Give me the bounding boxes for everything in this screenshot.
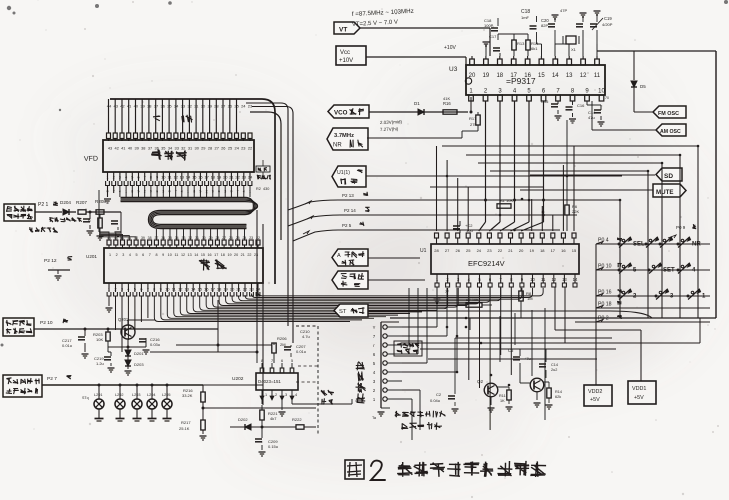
svg-text:Q2: Q2: [477, 379, 484, 384]
svg-text:P2 13: P2 13: [342, 193, 354, 198]
svg-text:P2 10: P2 10: [40, 320, 53, 326]
svg-text:17: 17: [510, 73, 517, 79]
svg-text:2u2: 2u2: [551, 368, 557, 372]
svg-text:70: 70: [605, 96, 609, 100]
svg-text:27: 27: [221, 104, 226, 109]
svg-text:13: 13: [188, 253, 192, 257]
svg-text:L203: L203: [132, 393, 140, 397]
svg-text:U1: U1: [420, 248, 427, 254]
svg-text:U1(1): U1(1): [337, 170, 350, 176]
svg-text:R222: R222: [292, 417, 302, 422]
svg-text:7: 7: [271, 359, 273, 363]
svg-text:R17: R17: [469, 116, 477, 121]
svg-text:+10V: +10V: [339, 58, 353, 64]
svg-text:8: 8: [155, 253, 157, 257]
svg-text:1.2u: 1.2u: [96, 361, 104, 366]
svg-text:D204: D204: [60, 200, 71, 205]
svg-text:Q201: Q201: [118, 317, 129, 322]
svg-text:C14: C14: [551, 363, 558, 367]
svg-text:28: 28: [208, 146, 212, 151]
svg-text:33.2K: 33.2K: [182, 393, 193, 398]
svg-text:3: 3: [285, 393, 287, 397]
svg-text:R206: R206: [277, 336, 287, 341]
svg-text:18: 18: [540, 248, 545, 253]
svg-text:38: 38: [148, 236, 152, 240]
svg-text:25.1K: 25.1K: [179, 426, 190, 431]
svg-text:D5: D5: [640, 84, 646, 89]
svg-text:36: 36: [161, 236, 165, 240]
svg-text:4: 4: [295, 393, 297, 397]
svg-text:R13: R13: [517, 41, 525, 46]
svg-text:C2: C2: [436, 392, 442, 397]
svg-text:R217: R217: [181, 420, 191, 425]
svg-text:10K: 10K: [96, 337, 103, 342]
svg-text:12: 12: [580, 73, 587, 79]
svg-text:D201: D201: [134, 351, 144, 356]
svg-text:27: 27: [222, 236, 226, 240]
svg-text:NR: NR: [692, 242, 701, 248]
svg-text:29: 29: [201, 146, 205, 151]
svg-text:14: 14: [194, 253, 198, 257]
svg-text:17: 17: [551, 248, 556, 253]
svg-text:24: 24: [477, 248, 482, 253]
svg-text:17: 17: [214, 253, 218, 257]
svg-text:C15: C15: [541, 99, 549, 104]
svg-text:21: 21: [241, 253, 245, 257]
svg-text:24: 24: [241, 104, 246, 109]
svg-text:+10V: +10V: [444, 45, 456, 51]
svg-text:100P: 100P: [484, 23, 494, 28]
svg-text:15: 15: [538, 73, 545, 79]
svg-text:0.03u: 0.03u: [150, 342, 160, 347]
svg-text:P2 14: P2 14: [344, 208, 356, 213]
svg-text:VCO: VCO: [334, 110, 348, 117]
svg-text:28: 28: [434, 248, 439, 253]
svg-text:21: 21: [508, 248, 513, 253]
svg-text:16: 16: [207, 253, 211, 257]
svg-text:2.03V(mid): 2.03V(mid): [380, 119, 403, 125]
svg-text:38: 38: [147, 104, 152, 109]
svg-text:35: 35: [168, 236, 172, 240]
svg-text:X1: X1: [571, 47, 577, 52]
svg-text:P2 12: P2 12: [44, 258, 57, 264]
svg-text:37: 37: [154, 104, 159, 109]
svg-text:VT: VT: [339, 27, 347, 34]
svg-text:1M: 1M: [527, 296, 533, 301]
svg-text:15: 15: [572, 248, 577, 253]
svg-text:2: 2: [116, 253, 118, 257]
svg-text:14: 14: [552, 73, 559, 79]
svg-text:18: 18: [496, 73, 503, 79]
svg-text:30: 30: [202, 236, 206, 240]
svg-text:16: 16: [524, 73, 531, 79]
svg-text:26: 26: [229, 236, 233, 240]
svg-text:+5V: +5V: [634, 395, 644, 401]
svg-text:20: 20: [234, 253, 238, 257]
svg-text:33: 33: [181, 104, 186, 109]
svg-text:12: 12: [181, 253, 185, 257]
svg-text:15: 15: [201, 253, 205, 257]
svg-text:3: 3: [122, 253, 124, 257]
svg-text:R208: R208: [95, 199, 106, 204]
svg-text:+5V: +5V: [590, 397, 600, 403]
svg-text:7: 7: [149, 253, 151, 257]
svg-text:47u: 47u: [588, 115, 595, 120]
svg-text:A: A: [337, 253, 341, 259]
svg-text:R2: R2: [256, 187, 261, 191]
svg-text:C3: C3: [508, 348, 514, 353]
svg-text:44: 44: [107, 104, 112, 109]
svg-text:29: 29: [207, 104, 212, 109]
svg-text:22: 22: [247, 253, 251, 257]
svg-text:43: 43: [108, 146, 112, 151]
svg-text:26: 26: [455, 248, 460, 253]
svg-text:23: 23: [248, 104, 253, 109]
svg-text:+7u: +7u: [524, 356, 531, 361]
svg-text:27: 27: [215, 146, 219, 151]
svg-text:D203: D203: [134, 362, 144, 367]
svg-text:C16: C16: [577, 103, 585, 108]
svg-text:0.01u: 0.01u: [62, 343, 72, 348]
svg-text:23: 23: [241, 146, 245, 151]
svg-text:35: 35: [161, 146, 165, 151]
svg-text:23: 23: [487, 248, 492, 253]
svg-text:37: 37: [154, 236, 158, 240]
svg-text:25: 25: [234, 104, 239, 109]
svg-text:37: 37: [148, 146, 152, 151]
svg-text:24: 24: [243, 236, 247, 240]
svg-text:62k: 62k: [555, 395, 561, 399]
svg-text:31: 31: [194, 104, 199, 109]
svg-text:U201: U201: [86, 254, 97, 259]
svg-text:4: 4: [129, 253, 131, 257]
svg-text:ST: ST: [339, 309, 347, 315]
svg-text:31: 31: [188, 146, 192, 151]
svg-text:41: 41: [127, 104, 132, 109]
svg-text:L204: L204: [147, 393, 155, 397]
svg-text:Y: Y: [373, 325, 376, 330]
svg-text:1K: 1K: [500, 399, 505, 403]
svg-text:34: 34: [175, 236, 179, 240]
svg-text:39: 39: [140, 104, 145, 109]
svg-text:A1 10K: A1 10K: [500, 198, 513, 203]
svg-text:7.27V(hi): 7.27V(hi): [380, 126, 399, 132]
svg-text:VFD: VFD: [84, 156, 98, 163]
svg-text:6: 6: [281, 359, 283, 363]
svg-text:31: 31: [195, 236, 199, 240]
svg-text:8: 8: [261, 359, 263, 363]
svg-text:41: 41: [121, 146, 125, 151]
svg-text:26: 26: [228, 104, 233, 109]
svg-text:R: R: [88, 219, 91, 223]
svg-text:42: 42: [120, 104, 125, 109]
svg-text:3.7MHz: 3.7MHz: [334, 133, 354, 139]
svg-text:82P: 82P: [541, 23, 548, 28]
svg-text:P0 9: P0 9: [676, 225, 686, 230]
svg-text:4.7u: 4.7u: [302, 334, 310, 339]
svg-text:MUTE: MUTE: [656, 189, 674, 196]
svg-text:1: 1: [265, 393, 267, 397]
svg-text:VDD1: VDD1: [632, 386, 646, 392]
svg-text:6k1: 6k1: [531, 46, 538, 51]
svg-text:L202: L202: [115, 393, 123, 397]
svg-text:P2 7: P2 7: [47, 376, 57, 382]
svg-text:6: 6: [142, 253, 144, 257]
svg-text:41K: 41K: [443, 96, 450, 101]
svg-text:32: 32: [188, 236, 192, 240]
svg-text:1: 1: [109, 253, 111, 257]
svg-text:40: 40: [134, 104, 139, 109]
svg-text:SD: SD: [664, 173, 673, 180]
svg-text:0.15u: 0.15u: [268, 444, 278, 449]
svg-text:2: 2: [275, 393, 277, 397]
svg-text:C19: C19: [604, 16, 612, 21]
svg-text:D4023=151: D4023=151: [258, 379, 281, 384]
svg-text:9: 9: [162, 253, 164, 257]
svg-text:Vcc: Vcc: [340, 50, 350, 56]
svg-text:SET: SET: [663, 268, 675, 274]
svg-text:U3: U3: [449, 66, 458, 73]
svg-text:20: 20: [519, 248, 524, 253]
svg-text:25: 25: [466, 248, 471, 253]
svg-text:L205: L205: [162, 393, 170, 397]
svg-text:22K: 22K: [572, 209, 579, 214]
svg-text:16: 16: [561, 248, 566, 253]
svg-text:39: 39: [135, 146, 139, 151]
svg-text:19: 19: [483, 73, 490, 79]
svg-text:25: 25: [236, 236, 240, 240]
svg-text:f =87.5MHz ~ 103MHz: f =87.5MHz ~ 103MHz: [352, 8, 414, 18]
svg-text:P2 1: P2 1: [38, 202, 49, 208]
svg-text:35: 35: [167, 104, 172, 109]
svg-text:4/20P: 4/20P: [602, 22, 613, 27]
svg-text:27: 27: [445, 248, 450, 253]
svg-text:1mF: 1mF: [521, 15, 530, 20]
svg-text:R14: R14: [555, 390, 562, 394]
svg-text:430: 430: [263, 187, 269, 191]
svg-text:47P: 47P: [560, 8, 567, 13]
svg-text:A2 10K: A2 10K: [466, 297, 479, 302]
svg-text:U202: U202: [232, 376, 244, 382]
svg-text:19: 19: [227, 253, 231, 257]
svg-text:18: 18: [221, 253, 225, 257]
svg-text:P2 5: P2 5: [342, 223, 352, 228]
svg-text:AM OSC: AM OSC: [660, 129, 681, 135]
svg-text:42: 42: [115, 146, 119, 151]
svg-text:NR: NR: [333, 143, 342, 149]
svg-text:10: 10: [168, 253, 172, 257]
svg-text:D202: D202: [238, 417, 248, 422]
svg-text:5: 5: [135, 253, 137, 257]
svg-text:FM OSC: FM OSC: [658, 111, 679, 117]
svg-text:SEL: SEL: [633, 242, 645, 248]
svg-text:38: 38: [141, 146, 145, 151]
svg-text:26: 26: [221, 146, 225, 151]
svg-text:43: 43: [113, 104, 118, 109]
svg-text:R16: R16: [443, 101, 451, 106]
svg-text:33: 33: [175, 146, 179, 151]
svg-text:D1: D1: [414, 101, 420, 106]
svg-text:10: 10: [598, 89, 605, 95]
svg-text:39: 39: [141, 236, 145, 240]
svg-text:29: 29: [209, 236, 213, 240]
svg-text:33: 33: [182, 236, 186, 240]
svg-text:0.01u: 0.01u: [296, 349, 306, 354]
svg-text:13: 13: [566, 73, 573, 79]
svg-text:11: 11: [174, 253, 178, 257]
svg-text:22: 22: [498, 248, 503, 253]
svg-text:VDD2: VDD2: [588, 389, 602, 395]
svg-text:27k: 27k: [470, 122, 476, 127]
svg-text:32: 32: [181, 146, 185, 151]
svg-text:R11: R11: [499, 394, 506, 398]
svg-text:32: 32: [187, 104, 192, 109]
svg-text:11: 11: [594, 73, 601, 79]
svg-text:22: 22: [248, 146, 252, 151]
svg-text:L201: L201: [94, 393, 102, 397]
svg-text:VT=2.5 V ~ 7.0 V: VT=2.5 V ~ 7.0 V: [352, 20, 398, 28]
svg-text:23: 23: [249, 236, 253, 240]
svg-text:4k7: 4k7: [270, 416, 277, 421]
svg-text:C17: C17: [489, 34, 497, 39]
svg-text:STq: STq: [82, 396, 89, 400]
svg-text:R207: R207: [76, 200, 87, 205]
svg-text:36: 36: [160, 104, 165, 109]
svg-text:19: 19: [529, 248, 534, 253]
svg-text:28: 28: [215, 236, 219, 240]
svg-text:25: 25: [228, 146, 232, 151]
svg-text:0.04u: 0.04u: [430, 398, 440, 403]
svg-text:30: 30: [201, 104, 206, 109]
svg-text:34: 34: [174, 104, 179, 109]
svg-text:77: 77: [445, 290, 449, 294]
svg-text:EFC9214V: EFC9214V: [468, 259, 505, 268]
svg-text:28: 28: [214, 104, 219, 109]
svg-text:5: 5: [291, 359, 293, 363]
